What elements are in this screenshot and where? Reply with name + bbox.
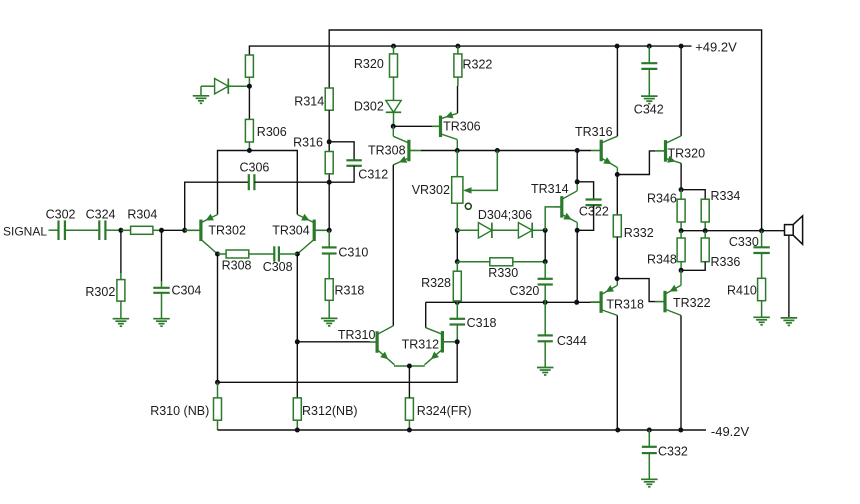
svg-text:R310 (NB): R310 (NB): [150, 404, 209, 418]
junction node TR312 base/C318: [455, 339, 460, 344]
label R306: [257, 125, 287, 139]
label R312(NB): [302, 404, 358, 418]
label C306: [240, 161, 270, 175]
capacitor C320: [538, 262, 553, 303]
wire R316 top lead: [328, 142, 330, 152]
junction node emitters TR310/TR312: [407, 364, 412, 369]
svg-text:C304: C304: [172, 284, 202, 298]
svg-text:C310: C310: [338, 246, 368, 260]
resistor R308: [218, 250, 275, 258]
diode D301 (unlabeled): [201, 79, 249, 94]
label D304;306: [478, 208, 532, 222]
junction node output/R346: [679, 228, 684, 233]
resistor R348: [677, 231, 685, 271]
wire TR310 base: [297, 341, 369, 343]
resistor R314: [325, 88, 333, 110]
junction node R324 bottom: [407, 428, 412, 433]
wire base bus black: [421, 150, 591, 152]
svg-text:R306: R306: [257, 125, 287, 139]
wire +49.2V supply rail: [249, 46, 691, 55]
wire column to TR304 base: [328, 182, 330, 230]
wire C306 right: [254, 181, 329, 183]
wire TR304 collector down: [296, 254, 298, 398]
label TR316: [575, 125, 613, 139]
capacitor C312: [346, 160, 361, 166]
svg-text:SIGNAL: SIGNAL: [3, 225, 47, 239]
wire C306 left: [185, 182, 249, 230]
capacitor C306: [249, 174, 255, 190]
svg-text:R302: R302: [85, 285, 115, 299]
svg-text:R346: R346: [647, 192, 677, 206]
wire TR314 emitter column: [576, 230, 578, 302]
wire node to R302: [120, 230, 122, 273]
label R332: [624, 226, 654, 240]
resistor R302: [117, 273, 125, 319]
junction node TR318 collector rail: [615, 428, 620, 433]
wire C324 to node: [105, 229, 121, 231]
svg-text:R410: R410: [727, 284, 757, 298]
wire emitter join: [394, 365, 425, 367]
ground below C342: [641, 96, 658, 104]
transistor TR302: [185, 214, 218, 254]
wire TR316 emitter: [616, 168, 618, 175]
svg-text:R308: R308: [222, 259, 252, 273]
wire TR308 collector: [392, 126, 394, 136]
wire TR318 base stub: [591, 301, 601, 303]
speaker LS: [785, 216, 803, 245]
wire TR320 emitter down: [680, 163, 682, 190]
resistor R332: [613, 215, 621, 237]
label C332: [658, 445, 688, 459]
transistor TR306: [432, 111, 457, 139]
label C318: [467, 316, 497, 330]
wire C322 bottom: [577, 205, 593, 230]
svg-text:TR318: TR318: [606, 298, 644, 312]
resistor R312: [293, 398, 301, 430]
junction node D302/TR306/TR308: [391, 124, 396, 129]
ground below speaker: [781, 318, 798, 326]
label R348: [647, 253, 677, 267]
junction node TR316 collector rail: [615, 44, 620, 49]
junction node R316/C306/C312: [327, 180, 332, 185]
wire C302-C324: [65, 229, 99, 231]
svg-text:TR314: TR314: [531, 182, 569, 196]
svg-text:TR316: TR316: [575, 125, 613, 139]
junction node R330/C320: [543, 259, 548, 264]
svg-text:C306: C306: [240, 161, 270, 175]
wire mid column: [456, 230, 458, 261]
resistor R322: [454, 46, 462, 86]
junction node bus/TR306 collector: [455, 148, 460, 153]
label R318: [335, 284, 365, 298]
junction node C320/C344: [543, 300, 548, 305]
label C342: [634, 103, 664, 117]
svg-text:R304: R304: [127, 208, 157, 222]
svg-text:+49.2V: +49.2V: [695, 39, 737, 54]
transistor TR310: [370, 326, 395, 365]
transistor TR322: [655, 285, 681, 316]
svg-text:C308: C308: [263, 260, 293, 274]
resistor R320: [390, 46, 398, 100]
junction node NFB rail left: [215, 380, 220, 385]
label +49.2V: [695, 39, 737, 54]
wire diode anode to ground: [200, 86, 202, 96]
label R302: [85, 285, 115, 299]
junction node TR304 base: [327, 228, 332, 233]
ground below R318: [321, 318, 338, 326]
resistor R301 (unlabeled): [245, 55, 253, 86]
junction node TR314 collector/C322: [575, 179, 580, 184]
transistor TR318: [591, 285, 618, 315]
svg-text:R324(FR): R324(FR): [417, 404, 472, 418]
svg-text:TR308: TR308: [368, 144, 406, 158]
capacitor C310: [322, 230, 337, 253]
label R314: [294, 95, 324, 109]
wire TR312 collector: [425, 302, 427, 327]
label R330: [488, 266, 518, 280]
diode D302: [386, 100, 401, 126]
label TR322: [673, 296, 711, 310]
label R304: [127, 208, 157, 222]
label TR306: [443, 120, 481, 134]
svg-text:D304;306: D304;306: [478, 208, 532, 222]
wire to R306: [248, 86, 250, 119]
junction node C332 rail: [647, 428, 652, 433]
svg-text:R314: R314: [294, 95, 324, 109]
wire TR322 emitter up: [680, 270, 682, 285]
junction node TR318 base: [574, 300, 579, 305]
svg-text:R316: R316: [293, 136, 323, 150]
svg-text:C320: C320: [510, 284, 540, 298]
wire TR308 emitter to TR310 collector: [392, 165, 394, 326]
label R328: [421, 276, 451, 290]
label TR302: [208, 224, 246, 238]
resistor R334: [701, 199, 709, 231]
wire TR306 base: [393, 125, 432, 127]
label C330: [729, 235, 759, 249]
wire TR302/TR304 emitters: [218, 151, 298, 215]
label R334: [711, 189, 741, 203]
resistor R330: [457, 258, 545, 266]
capacitor C332: [642, 430, 657, 479]
ground below R410: [753, 317, 770, 325]
label TR320: [668, 147, 706, 161]
wire TR320 collector: [680, 46, 682, 136]
diode D304: [457, 223, 492, 238]
svg-text:C318: C318: [467, 316, 497, 330]
wire output row: [681, 230, 762, 232]
label R410: [727, 284, 757, 298]
label TR308: [368, 144, 406, 158]
svg-text:R322: R322: [463, 58, 493, 72]
label R310 (NB): [150, 404, 209, 418]
transistor TR316: [601, 136, 617, 167]
label VR302: [412, 183, 450, 197]
transistor TR320: [655, 136, 681, 163]
wire TR316 base stub: [591, 150, 601, 152]
wire node to C304: [161, 230, 163, 281]
wire emitter node to R334: [681, 190, 705, 200]
label R336: [711, 255, 741, 269]
junction node diode row right: [543, 228, 548, 233]
label TR314: [531, 182, 569, 196]
junction node TR310 base: [295, 339, 300, 344]
svg-text:C302: C302: [46, 208, 76, 222]
svg-text:R332: R332: [624, 226, 654, 240]
svg-text:TR312: TR312: [402, 338, 440, 352]
svg-text:TR310: TR310: [338, 328, 376, 342]
label C308: [263, 260, 293, 274]
wire TR316 collector: [616, 46, 618, 136]
transistor TR308: [393, 136, 409, 165]
junction node TR314 emitter: [575, 228, 580, 233]
transistor TR312: [425, 328, 458, 365]
label C320: [510, 284, 540, 298]
wire diode node down: [544, 230, 546, 261]
wire C312 bottom: [329, 166, 354, 182]
transistor TR304: [297, 214, 329, 254]
wire bootstrap top rail: [329, 30, 761, 231]
svg-text:R320: R320: [354, 57, 384, 71]
wire TR322 base link: [617, 279, 655, 302]
junction node TR316 emitter: [615, 172, 620, 177]
resistor R304: [121, 226, 162, 234]
wire TR318 emitter up: [616, 279, 618, 286]
junction node R348/TR322 emitter: [679, 268, 684, 273]
wire R322 to TR306 emitter: [457, 86, 459, 113]
label R322: [463, 58, 493, 72]
junction node R322 top: [455, 44, 460, 49]
wire TR302 collector down: [217, 254, 219, 382]
label R320: [354, 57, 384, 71]
junction node R312 bottom: [295, 428, 300, 433]
junction node diode row left: [455, 228, 460, 233]
wire TR320 base link: [617, 151, 655, 175]
wire NFB rail: [218, 342, 458, 383]
junction node R328/R330: [455, 259, 460, 264]
resistor R410: [758, 278, 766, 317]
junction node C318 top: [455, 300, 460, 305]
capacitor C318: [450, 302, 466, 342]
resistor R306: [245, 119, 253, 150]
wire signal lead: [49, 229, 59, 231]
label D302: [354, 100, 384, 114]
resistor R318: [325, 254, 333, 319]
svg-text:R318: R318: [335, 284, 365, 298]
wire C312 top: [329, 142, 354, 161]
wire TR306 collector: [456, 140, 458, 151]
junction node TR302 collector: [215, 252, 220, 257]
junction node R306/emitters: [247, 148, 252, 153]
label SIGNAL: [3, 225, 47, 239]
wire emitters to R324: [408, 366, 410, 398]
junction node TR318 emitter: [615, 276, 620, 281]
ground near D301: [193, 96, 210, 104]
junction node TR320 emitter: [679, 187, 684, 192]
wire TR314 emitter: [576, 223, 578, 231]
junction node bus/VR302 wiper: [495, 148, 500, 153]
svg-text:R328: R328: [421, 276, 451, 290]
wire R314 to node: [328, 110, 330, 142]
resistor R336: [701, 231, 709, 262]
resistor R328: [453, 262, 461, 303]
label C312: [358, 168, 388, 182]
capacitor C344: [538, 302, 553, 367]
svg-text:VR302: VR302: [412, 183, 450, 197]
wire VAS out row: [426, 301, 591, 303]
junction node diode/R junction: [247, 84, 252, 89]
diode D306: [492, 223, 545, 238]
label -49.2V: [711, 424, 750, 439]
svg-text:C330: C330: [729, 235, 759, 249]
junction node TR320 collector rail: [679, 44, 684, 49]
wire R332 top: [616, 175, 618, 215]
resistor R324: [405, 398, 413, 430]
svg-text:TR304: TR304: [272, 224, 310, 238]
svg-text:TR320: TR320: [668, 147, 706, 161]
resistor R316: [325, 152, 333, 174]
svg-text:R348: R348: [647, 253, 677, 267]
resistor R310: [214, 382, 222, 430]
capacitor C324: [99, 220, 105, 240]
label TR318: [606, 298, 644, 312]
wire TR314 base: [545, 207, 553, 230]
label TR310: [338, 328, 376, 342]
junction node R304/C304: [159, 228, 164, 233]
capacitor C342: [641, 46, 657, 96]
svg-text:D302: D302: [354, 100, 384, 114]
marker circle VR302: [465, 203, 471, 209]
ground below C304: [153, 319, 170, 327]
svg-text:TR302: TR302: [208, 224, 246, 238]
svg-text:-49.2V: -49.2V: [711, 424, 750, 439]
label R316: [293, 136, 323, 150]
label TR304: [272, 224, 310, 238]
wire R332 bottom: [616, 237, 618, 279]
wire bus down to TR314: [576, 151, 578, 182]
wire R316 bottom lead: [328, 174, 330, 182]
svg-text:R336: R336: [711, 255, 741, 269]
wire TR314 collector: [576, 182, 578, 191]
svg-text:TR306: TR306: [443, 120, 481, 134]
svg-text:C332: C332: [658, 445, 688, 459]
svg-text:TR322: TR322: [673, 296, 711, 310]
ground below C344: [537, 368, 554, 376]
label R308: [222, 259, 252, 273]
capacitor C330: [753, 231, 769, 279]
transistor TR314: [554, 191, 578, 223]
svg-text:R312(NB): R312(NB): [302, 404, 358, 418]
capacitor C304: [153, 281, 169, 319]
wire -49.2V rail: [218, 429, 707, 431]
label C302: [46, 208, 76, 222]
wire C322 top: [577, 182, 593, 200]
junction node bus/TR314 collector branch: [575, 148, 580, 153]
ground below C332: [641, 479, 658, 487]
svg-text:R330: R330: [488, 266, 518, 280]
wire base bus TR308-TR316: [409, 150, 421, 152]
junction node TR302 base: [182, 228, 187, 233]
junction node R314/R316/C312: [327, 139, 332, 144]
capacitor C322: [586, 200, 602, 206]
svg-text:C324: C324: [86, 208, 116, 222]
label C324: [86, 208, 116, 222]
svg-text:C342: C342: [634, 103, 664, 117]
ground below R302: [113, 319, 129, 327]
wire output to speaker: [762, 230, 785, 232]
svg-text:R334: R334: [711, 189, 741, 203]
wire speaker to ground: [788, 235, 790, 318]
svg-text:C312: C312: [358, 168, 388, 182]
junction node input/R302: [118, 228, 123, 233]
capacitor C302: [59, 220, 65, 240]
junction node output/R334: [703, 228, 708, 233]
label C322: [579, 205, 609, 219]
svg-text:C344: C344: [557, 334, 587, 348]
label R346: [647, 192, 677, 206]
resistor R346: [677, 190, 685, 231]
wire R336 bottom: [681, 262, 705, 271]
label C304: [172, 284, 202, 298]
wire TR322 collector down: [680, 315, 682, 430]
wire to TR302 base node: [162, 229, 185, 231]
potentiometer VR302: [452, 151, 498, 231]
label C344: [557, 334, 587, 348]
junction node TR322 collector rail: [678, 428, 683, 433]
junction node TR304 collector: [295, 252, 300, 257]
junction node C342 rail: [647, 44, 652, 49]
label R324(FR): [417, 404, 472, 418]
label TR312: [402, 338, 440, 352]
wire TR318 collector down: [616, 315, 618, 430]
junction node output/C330: [759, 228, 764, 233]
label C310: [338, 246, 368, 260]
junction node R320 top: [391, 44, 396, 49]
capacitor C308: [274, 246, 297, 261]
